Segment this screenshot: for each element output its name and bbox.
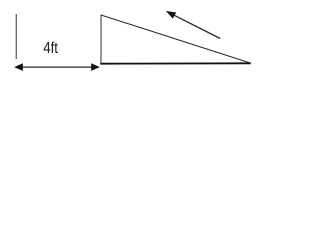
wire: motion arrow shaft bbox=[174, 15, 221, 39]
wire: dimension arrow shaft bbox=[20, 66, 94, 68]
triangle hypotenuse bbox=[101, 15, 251, 63]
motion arrowhead bbox=[166, 11, 176, 19]
left arrowhead bbox=[14, 63, 23, 71]
dimension double arrow (4 ft width) bbox=[14, 63, 100, 71]
motion arrow up the incline bbox=[166, 11, 220, 39]
triangle bottom edge bbox=[100, 62, 250, 64]
vertical reference line (left extension line) bbox=[15, 14, 17, 59]
svg-text:4ft: 4ft bbox=[43, 40, 58, 57]
right arrowhead bbox=[91, 63, 100, 71]
triangle left vertical edge bbox=[100, 15, 102, 64]
